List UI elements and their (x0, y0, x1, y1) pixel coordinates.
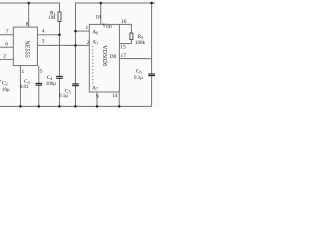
svg-text:1: 1 (86, 25, 89, 31)
svg-text:0.1μ: 0.1μ (59, 94, 68, 99)
svg-text:A0: A0 (92, 29, 98, 35)
svg-text:16: 16 (121, 19, 127, 25)
svg-text:10μ: 10μ (2, 88, 10, 93)
svg-text:15: 15 (120, 45, 126, 51)
svg-text:R4: R4 (138, 34, 144, 40)
svg-text:C6: C6 (136, 69, 142, 75)
svg-text:4: 4 (42, 28, 45, 34)
svg-text:0.1μ: 0.1μ (134, 76, 143, 81)
svg-text:3: 3 (42, 38, 45, 44)
svg-text:2: 2 (3, 54, 6, 60)
svg-text:5: 5 (40, 69, 43, 75)
svg-text:8: 8 (26, 22, 29, 28)
svg-text:100μ: 100μ (46, 82, 57, 87)
svg-text:VD5026: VD5026 (101, 45, 108, 66)
svg-text:C4: C4 (47, 75, 53, 81)
svg-text:2: 2 (87, 40, 90, 46)
svg-text:9: 9 (96, 94, 99, 100)
svg-text:100k: 100k (135, 41, 146, 46)
svg-text:D0: D0 (110, 54, 117, 60)
svg-text:A1: A1 (92, 40, 98, 46)
svg-text:14: 14 (112, 93, 118, 99)
svg-text:17: 17 (121, 53, 127, 59)
svg-text:1M: 1M (48, 16, 56, 21)
svg-text:1: 1 (22, 69, 25, 75)
svg-text:6: 6 (5, 42, 8, 48)
svg-text:C3: C3 (24, 79, 30, 85)
svg-text:VDD: VDD (102, 23, 112, 29)
svg-text:NE555: NE555 (23, 40, 30, 58)
svg-text:18: 18 (95, 14, 101, 20)
svg-text:A7: A7 (92, 86, 98, 92)
svg-text:7: 7 (6, 29, 9, 35)
svg-text:C2: C2 (2, 80, 8, 86)
svg-text:0.01: 0.01 (20, 85, 29, 90)
